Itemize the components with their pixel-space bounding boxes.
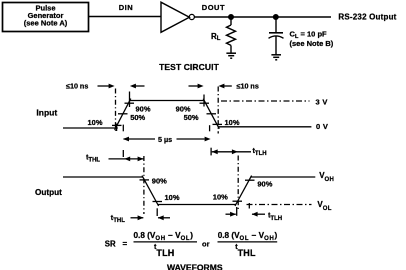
arrowhead tTLH bottom left <box>230 212 236 217</box>
formula fraction 2 bar <box>218 241 278 243</box>
fall time arrow left <box>189 85 200 87</box>
tick below output falling 10% <box>156 208 158 216</box>
5us dimension line left <box>124 138 156 140</box>
svg-text:≤10 ns: ≤10 ns <box>66 81 88 90</box>
tTHL top dimension line <box>109 158 144 160</box>
svg-text:10%: 10% <box>225 118 240 127</box>
wire DOUT: inverter output to RS-232 output <box>194 16 331 18</box>
svg-text:DIN: DIN <box>119 3 133 12</box>
input waveform low segment left <box>63 127 118 129</box>
arrowhead tTHL bottom right <box>158 215 164 220</box>
tick below output rising 10% <box>236 207 238 216</box>
input rising 90% vertical tick <box>129 92 131 108</box>
arrowhead tTHL top right <box>138 157 144 162</box>
arrowhead fall-left <box>198 84 204 89</box>
input falling 50% tick <box>207 113 217 115</box>
tTLH bottom right line <box>252 213 265 215</box>
capacitor CL <box>269 17 284 55</box>
svg-text:RS-232 Output: RS-232 Output <box>338 13 396 22</box>
arrowhead tTHL bottom left <box>138 215 144 220</box>
input rising 90% tick <box>125 102 135 104</box>
input waveform low segment right 0V <box>218 126 311 128</box>
output rising 10% tick <box>233 200 243 202</box>
output waveform falling edge <box>142 176 159 206</box>
junction at RL <box>229 15 234 20</box>
svg-text:50%: 50% <box>184 113 199 122</box>
svg-text:tTLH: tTLH <box>154 242 175 258</box>
svg-text:=: = <box>123 239 128 248</box>
5us tick right <box>209 125 211 131</box>
input rising 10% vertical tick <box>116 124 118 131</box>
tTHL bottom right line <box>158 217 170 219</box>
svg-text:DOUT: DOUT <box>202 3 225 12</box>
arrowhead 5us left <box>123 137 129 142</box>
resistor RL <box>227 17 236 53</box>
tTLH bottom left line <box>226 213 236 215</box>
svg-text:Output: Output <box>35 188 62 197</box>
svg-text:WAVEFORMS: WAVEFORMS <box>167 263 223 270</box>
svg-text:tTHL: tTHL <box>111 213 125 224</box>
arrowhead rise-right <box>130 84 136 89</box>
rise time arrow right <box>135 85 145 87</box>
input waveform rising edge <box>115 99 131 130</box>
5us tick left <box>122 125 124 132</box>
output waveform rising edge <box>235 176 252 206</box>
tick input 50% above tTHL line <box>122 150 124 157</box>
3V level dash-dot line <box>221 100 310 102</box>
fall time arrow right <box>224 85 232 87</box>
arrowhead tTLH bottom right <box>252 212 258 217</box>
svg-text:3 V: 3 V <box>316 97 328 106</box>
input rising 50% tick <box>118 113 128 115</box>
rise time arrow left <box>98 85 111 87</box>
svg-text:90%: 90% <box>152 176 167 185</box>
input falling 90% vertical tick <box>203 95 205 107</box>
wire DIN: generator to inverter input <box>89 16 162 18</box>
svg-text:90%: 90% <box>257 180 272 189</box>
output falling 10% tick <box>153 201 163 203</box>
input falling 10% tick <box>213 123 223 125</box>
arrowhead fall-right <box>218 84 224 89</box>
pulse generator box <box>3 3 89 32</box>
svg-text:RL: RL <box>211 32 221 42</box>
svg-text:tTHL: tTHL <box>235 242 256 258</box>
formula fraction 1 bar <box>134 241 198 243</box>
inverter output bubble <box>189 14 194 19</box>
svg-text:tTLH: tTLH <box>268 211 282 222</box>
output rising 90% tick <box>245 179 255 181</box>
input waveform high segment <box>130 100 205 102</box>
svg-text:tTLH: tTLH <box>253 146 267 157</box>
svg-text:TEST CIRCUIT: TEST CIRCUIT <box>159 62 219 72</box>
reference dash-dot vertical at output falling 90% <box>143 156 145 214</box>
svg-text:VOL: VOL <box>317 200 331 212</box>
svg-text:10%: 10% <box>213 193 228 202</box>
tTHL bottom left line <box>131 217 144 219</box>
svg-text:(see Note B): (see Note B) <box>290 39 334 48</box>
tick input 50% above tTLH line <box>210 148 212 156</box>
VOL level dash-dot line <box>247 204 312 206</box>
svg-text:0 V: 0 V <box>316 122 328 131</box>
input waveform falling edge <box>203 99 219 129</box>
reference dash-dot vertical at input falling 10% <box>217 87 219 134</box>
reference dash-dot vertical at output rising 10% <box>237 156 239 210</box>
output falling 90% tick <box>140 179 150 181</box>
input falling 90% tick <box>200 102 210 104</box>
svg-text:5 µs: 5 µs <box>158 135 172 144</box>
svg-text:10%: 10% <box>88 118 103 127</box>
junction at CL <box>274 15 279 20</box>
svg-text:or: or <box>202 239 210 248</box>
ground at CL <box>271 55 281 60</box>
output waveform high segment right VOH <box>251 176 316 178</box>
svg-text:≤10 ns: ≤10 ns <box>237 81 259 90</box>
tick below output rising 90% <box>248 203 250 209</box>
op-amp U1 inverter triangle <box>161 2 189 32</box>
tTLH top dimension line <box>212 151 251 153</box>
arrowhead rise-left <box>109 84 115 89</box>
svg-text:Input: Input <box>36 108 57 118</box>
svg-text:0.8 (VOL − VOH): 0.8 (VOL − VOH) <box>218 231 278 242</box>
svg-text:VOH: VOH <box>319 171 334 183</box>
input rising 10% tick <box>112 124 122 126</box>
svg-text:(see Note A): (see Note A) <box>24 19 68 28</box>
arrowhead tTLH top right <box>232 149 238 154</box>
output waveform high segment left <box>63 176 143 178</box>
svg-text:50%: 50% <box>130 113 145 122</box>
pulse generator text <box>24 4 68 28</box>
svg-text:tTHL: tTHL <box>86 152 100 163</box>
svg-text:SR: SR <box>105 239 116 248</box>
reference dash-dot vertical at input rising 10% <box>115 89 117 132</box>
arrowhead tTLH top left <box>212 149 218 154</box>
5us dimension line right <box>177 138 205 140</box>
svg-text:10%: 10% <box>165 193 180 202</box>
output waveform low segment <box>158 204 236 206</box>
svg-text:0.8 (VOH − VOL): 0.8 (VOH − VOL) <box>134 231 194 242</box>
ground at RL <box>226 53 236 58</box>
arrowhead 5us right <box>205 137 211 142</box>
arrowhead tTHL top left <box>124 157 130 162</box>
